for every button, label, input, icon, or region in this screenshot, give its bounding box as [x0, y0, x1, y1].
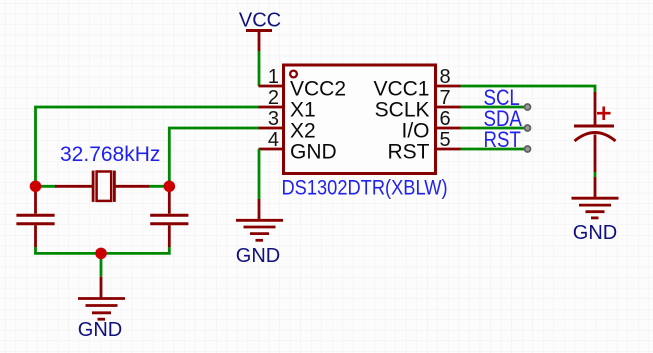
- svg-text:GND: GND: [236, 245, 280, 267]
- pin 4 GND: [259, 129, 337, 164]
- svg-text:8: 8: [440, 66, 451, 88]
- pin 6 I/O: [401, 108, 460, 142]
- wire center-bottom to ground: [100, 253, 103, 276]
- dangling end dot SCL: [525, 104, 531, 110]
- svg-text:I/O: I/O: [401, 120, 429, 143]
- wire pin 4 to ground: [258, 149, 261, 199]
- svg-text:GND: GND: [78, 319, 122, 341]
- crystal X1 32.768kHz: [55, 171, 149, 202]
- ground symbol (middle): [236, 199, 283, 267]
- svg-text:5: 5: [440, 129, 451, 151]
- svg-text:VCC: VCC: [239, 10, 281, 32]
- svg-text:X1: X1: [290, 99, 316, 122]
- capacitor C1 (left): [16, 190, 54, 247]
- svg-text:DS1302DTR(XBLW): DS1302DTR(XBLW): [282, 176, 448, 199]
- value label DS1302DTR(XBLW): [282, 176, 448, 199]
- wire bottom left loop: [36, 247, 170, 253]
- wire capacitor C3 to ground: [594, 172, 597, 177]
- svg-text:4: 4: [268, 129, 279, 151]
- wire crystal left lead: [36, 185, 57, 188]
- net label RST: [484, 127, 522, 152]
- dangling end dot SDA: [525, 125, 531, 131]
- dangling end dot RST: [525, 146, 531, 152]
- wire pin 6 SDA: [461, 127, 528, 130]
- capacitor C3 (polarized): [574, 92, 616, 172]
- svg-text:GND: GND: [573, 222, 617, 244]
- pin 1 indicator circle: [290, 71, 297, 78]
- svg-text:GND: GND: [290, 141, 337, 164]
- svg-text:SCLK: SCLK: [375, 99, 430, 122]
- svg-text:X2: X2: [290, 120, 316, 143]
- ground symbol (right): [572, 177, 619, 244]
- pin 1 VCC2: [259, 66, 347, 101]
- wire pin 7 SCL: [461, 106, 528, 109]
- svg-text:RST: RST: [484, 127, 522, 152]
- wire crystal right lead: [148, 185, 169, 188]
- pin 5 RST: [388, 129, 461, 163]
- svg-text:7: 7: [440, 87, 451, 109]
- wire VCC to pin 1: [258, 51, 261, 86]
- wire pin 2 to crystal left node: [36, 107, 259, 186]
- pin 7 SCLK: [375, 87, 461, 121]
- net label SDA: [484, 106, 523, 131]
- wire pin 8 to capacitor C3: [461, 86, 596, 93]
- svg-text:32.768kHz: 32.768kHz: [60, 143, 160, 166]
- net label SCL: [484, 85, 520, 110]
- pin 2 X1: [259, 87, 316, 122]
- junction bottom center node: [95, 248, 107, 260]
- svg-text:3: 3: [268, 108, 279, 130]
- wire pin 3 to crystal right node: [169, 128, 258, 186]
- svg-text:1: 1: [268, 66, 279, 88]
- ground symbol (left): [78, 277, 125, 341]
- junction crystal right node: [164, 181, 176, 193]
- pin 8 VCC1: [373, 66, 460, 100]
- svg-text:2: 2: [268, 87, 279, 109]
- wire pin 5 RST: [461, 148, 528, 151]
- svg-text:VCC2: VCC2: [290, 78, 346, 101]
- power flag VCC: [239, 10, 281, 52]
- junction crystal left node: [30, 181, 42, 193]
- svg-text:6: 6: [440, 108, 451, 130]
- capacitor C2 (right): [150, 190, 188, 247]
- svg-text:RST: RST: [388, 141, 430, 164]
- op-amp body: IC U1 DS1302DTR rectangle: [284, 65, 436, 174]
- pin 3 X2: [259, 108, 316, 143]
- svg-text:VCC1: VCC1: [373, 78, 429, 101]
